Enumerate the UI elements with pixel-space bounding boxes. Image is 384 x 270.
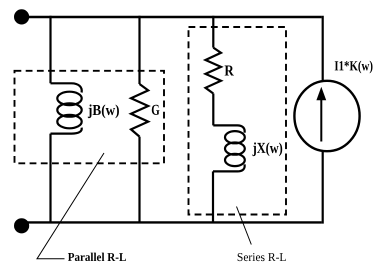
current source I1*K(w)	[294, 81, 359, 151]
svg-text:jB(w): jB(w)	[87, 102, 119, 119]
node: bottom-left terminal	[14, 218, 29, 233]
current source arrow	[320, 98, 322, 142]
svg-text:G: G	[151, 102, 160, 119]
wire: R to jX	[212, 94, 214, 126]
inductor jX(w)	[213, 125, 245, 171]
resistor R	[206, 48, 222, 94]
wire: jX to bottom rail	[212, 171, 214, 222]
wire: right branch top drop	[322, 16, 324, 82]
svg-text:jX(w): jX(w)	[252, 140, 283, 157]
resistor G	[131, 84, 148, 137]
svg-text:Series R-L: Series R-L	[237, 250, 287, 264]
svg-text:Parallel R-L: Parallel R-L	[68, 250, 127, 264]
svg-text:I1*K(w): I1*K(w)	[334, 59, 373, 74]
dashed box: Parallel R-L	[15, 71, 165, 164]
wire: jB branch to bottom rail	[49, 134, 51, 223]
node: top-left terminal	[14, 9, 29, 24]
wire: top rail	[21, 16, 322, 18]
wire: bottom rail	[21, 221, 322, 223]
svg-text:R: R	[224, 63, 234, 80]
wire: G branch to bottom rail	[138, 137, 140, 223]
leader line: Parallel R-L	[37, 153, 104, 259]
wire: jB branch from top rail	[49, 16, 51, 84]
wire: right branch bottom drop	[322, 151, 324, 224]
leader line: Series R-L	[237, 207, 252, 245]
wire: series branch from top rail	[212, 16, 214, 48]
dashed box: Series R-L	[189, 27, 287, 215]
wire: G branch from top rail	[138, 16, 140, 84]
inductor jB(w)	[51, 83, 82, 133]
